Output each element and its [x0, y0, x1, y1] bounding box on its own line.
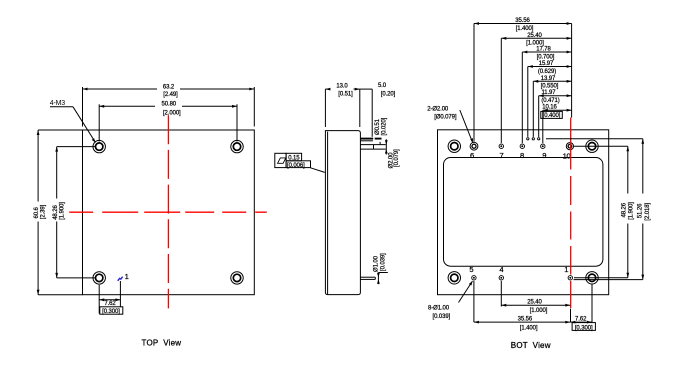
svg-text:[0.079]: [0.079]	[394, 149, 400, 167]
mounting hole bottom-left	[93, 272, 105, 284]
dimension 1.00 diameter line	[377, 273, 388, 285]
dimension 50.80 [2.000] hole spacing	[99, 104, 237, 141]
dim line 11.97	[539, 94, 572, 97]
pin number labels bottom row	[469, 265, 568, 274]
extension line pin 8 up	[521, 52, 523, 143]
dimension text 1.00 rotated	[374, 253, 387, 272]
svg-text:6: 6	[470, 151, 474, 160]
label text 8-1.00	[428, 306, 451, 320]
common right extension line	[571, 24, 573, 118]
svg-text:0.15: 0.15	[288, 156, 300, 162]
dimension 5.0 [0.20] pin length	[360, 89, 372, 137]
power pin top (side view)	[360, 145, 385, 150]
bot view centerline (red) through pins 1 and 10	[570, 118, 572, 309]
pin 1 polarity mark (blue)	[118, 277, 123, 281]
svg-text:(0.471): (0.471)	[541, 98, 559, 104]
dim line 15.97	[528, 65, 572, 68]
svg-text:Ø1.00: Ø1.00	[374, 255, 380, 272]
bot mounting hole bottom-left	[448, 272, 460, 284]
sense pin a	[527, 138, 529, 140]
svg-text:5.0: 5.0	[378, 83, 387, 89]
svg-text:15.97: 15.97	[539, 61, 554, 67]
svg-text:63.2: 63.2	[163, 84, 175, 90]
svg-text:9: 9	[542, 151, 546, 160]
dim line 25.40	[501, 37, 571, 40]
svg-text:[2.018]: [2.018]	[645, 203, 651, 221]
svg-text:[0.51]: [0.51]	[338, 92, 353, 98]
dimension text 60.6 rotated	[32, 202, 46, 222]
side view body outline	[325, 131, 360, 295]
dimension 7.62 [0.300] pin offset	[99, 281, 120, 314]
svg-text:48.26: 48.26	[53, 205, 59, 220]
bot mounting hole top-left	[448, 140, 460, 152]
extension line pin 9 up	[542, 110, 544, 143]
dimension text 13.0	[336, 83, 353, 97]
top view centerline vertical (red)	[167, 115, 169, 308]
svg-text:(0.629): (0.629)	[538, 69, 556, 75]
svg-text:[Ø0.079]: [Ø0.079]	[434, 115, 457, 121]
extension below red centerline to bottom dims	[570, 309, 572, 323]
top view body outline	[83, 130, 255, 295]
white backing for rotated right dim texts	[618, 194, 651, 224]
dimension text 5.0	[378, 83, 396, 98]
pin 4	[499, 276, 503, 280]
dimension text 2.00 rotated	[389, 149, 401, 169]
svg-text:8: 8	[520, 151, 524, 160]
dim text 17.78	[536, 47, 555, 61]
svg-text:35.56: 35.56	[515, 18, 530, 24]
dimension 60.6 [2.39] height	[37, 130, 83, 295]
extension line sense pin a up	[527, 67, 529, 137]
pin 8	[520, 144, 524, 148]
svg-text:[2.49]: [2.49]	[163, 92, 178, 98]
svg-text:17.78: 17.78	[536, 47, 551, 53]
dim line 51.26 vertical	[641, 139, 644, 280]
dimension text 48.26 rotated	[51, 199, 66, 222]
svg-text:BOT View: BOT View	[511, 341, 551, 350]
bottom view case outline (rounded)	[444, 158, 603, 267]
svg-text:[0.550]: [0.550]	[541, 84, 559, 90]
svg-text:2-Ø2.00: 2-Ø2.00	[427, 106, 449, 112]
dimension 48.26 [1.900] hole spacing vertical	[55, 147, 96, 278]
flatness leader	[311, 168, 325, 173]
svg-text:10: 10	[563, 151, 571, 160]
dim line 7.62 bottom	[570, 321, 592, 324]
mounting hole top-right	[231, 140, 243, 152]
extension line pin 5 down	[473, 281, 475, 322]
svg-text:TOP View: TOP View	[142, 339, 182, 348]
svg-text:[0.039]: [0.039]	[380, 253, 386, 271]
pin 9	[541, 144, 545, 148]
svg-text:[0.020]: [0.020]	[381, 117, 387, 135]
dim text 35.56	[515, 18, 534, 32]
dim text 13.97	[541, 76, 559, 90]
bot mounting hole bottom-right	[586, 272, 598, 284]
svg-text:[1.900]: [1.900]	[629, 202, 635, 220]
svg-text:60.6: 60.6	[34, 206, 40, 218]
box around 0.400	[541, 111, 563, 118]
pin 6	[470, 142, 478, 150]
svg-text:Ø0.51: Ø0.51	[375, 118, 381, 135]
svg-text:13.97: 13.97	[541, 76, 556, 82]
leader tick for pin diameter 0.51	[379, 142, 381, 144]
extension line pin 7 up	[500, 38, 502, 143]
dimension text 7.62 boxed	[102, 301, 120, 315]
sense pin b	[532, 138, 534, 140]
svg-text:51.26: 51.26	[637, 203, 643, 218]
dim text 51.26 rotated	[637, 203, 651, 221]
svg-text:[2.39]: [2.39]	[41, 204, 47, 219]
side view baseplate inner edge line	[327, 132, 329, 295]
dim text 25.40 bottom	[527, 300, 548, 315]
label 8-1.00 with leader	[459, 281, 473, 303]
svg-text:[1.400]: [1.400]	[520, 325, 538, 331]
extension line pin 6 up	[473, 24, 475, 142]
flatness values	[287, 156, 305, 169]
dim line 17.78	[522, 51, 571, 54]
dim line 35.56 bottom	[474, 321, 570, 324]
dim line 35.56	[474, 22, 572, 25]
bot mounting hole top-right	[586, 140, 598, 152]
svg-text:1: 1	[125, 272, 129, 281]
svg-text:[0.20]: [0.20]	[381, 92, 396, 98]
flatness tolerance frame	[275, 153, 311, 167]
hidden sense-pin row (thick dashed bar)	[360, 138, 381, 140]
svg-text:4: 4	[499, 265, 503, 274]
sense pin c	[538, 138, 540, 140]
dim text 10.16 boxed	[542, 105, 561, 119]
svg-text:[0.006]: [0.006]	[287, 163, 305, 169]
svg-text:35.56: 35.56	[518, 317, 533, 323]
dim line 10.16	[543, 109, 572, 112]
label text 4-M3	[50, 100, 65, 107]
svg-text:25.40: 25.40	[527, 33, 542, 39]
extension line pin 4 down	[500, 281, 502, 307]
box around 0.300 bottom	[572, 323, 595, 331]
box around 0.300	[100, 307, 123, 314]
svg-text:[0.700]: [0.700]	[537, 54, 555, 60]
title BOT View	[511, 341, 551, 350]
svg-text:7: 7	[500, 151, 504, 160]
svg-text:5: 5	[469, 265, 473, 274]
label text 2-2.00	[427, 106, 457, 120]
leaders to 51.26 dim right	[546, 139, 643, 280]
label 4-M3 with leader	[50, 107, 96, 143]
mounting hole bottom-right	[231, 272, 243, 284]
dimension text 0.51 rotated	[375, 117, 387, 135]
extension line sense pin b up	[532, 81, 534, 137]
dim line 48.26 vertical	[626, 146, 629, 278]
leaders to 48.26 dim right	[574, 146, 628, 278]
dimension text 63.2	[163, 84, 178, 98]
svg-text:[0.039]: [0.039]	[433, 314, 451, 320]
svg-text:11.97: 11.97	[541, 90, 556, 96]
dimension 63.2 [2.49] width	[83, 87, 255, 127]
pin 5	[472, 276, 476, 280]
extension line sense pin c up	[538, 96, 540, 137]
pin 7	[499, 144, 503, 148]
signal pin bottom (side view)	[360, 277, 375, 279]
dim line 13.97	[533, 80, 571, 83]
pin 10	[566, 143, 573, 150]
dim text 7.62 boxed bottom	[575, 317, 593, 332]
dimension 2.00 diameter line	[385, 139, 388, 154]
svg-text:48.26: 48.26	[621, 202, 627, 217]
mounting hole top-left	[93, 140, 105, 152]
dim line 25.40 bottom	[501, 304, 570, 307]
extension line pin1/hole down	[591, 285, 593, 323]
svg-text:50.80: 50.80	[162, 102, 177, 108]
pin 1	[568, 276, 572, 280]
dim text 35.56 bottom	[518, 317, 538, 332]
bottom view body outline	[438, 130, 609, 295]
svg-text:7.62: 7.62	[575, 317, 587, 323]
svg-text:4-M3: 4-M3	[50, 100, 65, 107]
svg-text:[1.000]: [1.000]	[530, 308, 548, 314]
dim text 11.97	[541, 90, 559, 104]
svg-text:[1.900]: [1.900]	[60, 202, 66, 220]
pin number labels top row	[470, 151, 571, 161]
dimension text 50.80	[162, 102, 182, 117]
dimension 13.0 [0.51] thickness	[325, 88, 359, 127]
svg-text:25.40: 25.40	[527, 300, 542, 306]
label 2-2.00 with leader	[460, 110, 473, 143]
top view centerline horizontal (red)	[69, 211, 267, 213]
dim text 48.26 rotated	[621, 202, 634, 220]
pin 1 number in top view	[125, 272, 129, 281]
svg-text:13.0: 13.0	[336, 83, 348, 89]
dim text 25.40	[526, 33, 544, 47]
dim text 15.97	[538, 61, 556, 75]
svg-text:8-Ø1.00: 8-Ø1.00	[428, 306, 450, 312]
svg-text:[1.400]: [1.400]	[516, 26, 534, 32]
svg-text:10.16: 10.16	[542, 105, 557, 111]
title TOP View	[142, 339, 182, 348]
svg-text:1: 1	[564, 265, 568, 274]
svg-text:[2.000]: [2.000]	[163, 111, 181, 117]
sense pin lower edge line	[360, 140, 373, 142]
